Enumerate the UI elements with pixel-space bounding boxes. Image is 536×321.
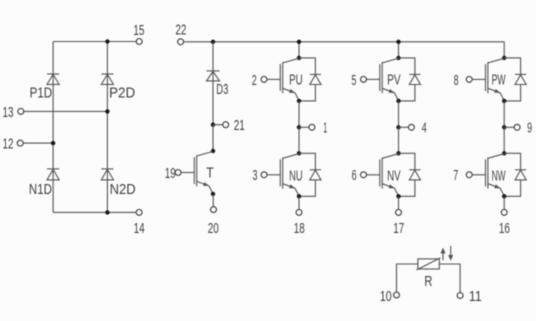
svg-text:21: 21: [234, 117, 245, 134]
terminal 22: [178, 39, 184, 45]
terminal 8 gate of PW: [466, 76, 472, 82]
node emitter of T: [211, 192, 215, 196]
svg-text:9: 9: [527, 120, 532, 137]
label 1: [323, 120, 327, 137]
wire NU emitter to terminal 18: [298, 196, 300, 209]
svg-text:19: 19: [165, 165, 176, 182]
terminal 19 gate of T: [175, 170, 181, 176]
freewheel diode of PU: [299, 58, 321, 101]
svg-text:10: 10: [380, 288, 392, 305]
wire node 13 to bridge: [24, 110, 108, 112]
svg-text:17: 17: [393, 220, 404, 237]
terminal 12: [17, 140, 23, 146]
wire rail drop to PW: [503, 42, 505, 58]
label 4: [422, 120, 427, 137]
node 1 junction: [297, 125, 301, 129]
wire rectifier left leg: [52, 42, 54, 213]
node emitter of PU: [297, 99, 301, 103]
svg-text:R: R: [424, 273, 432, 290]
label 20: [208, 220, 219, 237]
svg-text:P2D: P2D: [109, 84, 135, 101]
terminal 15: [136, 39, 142, 45]
svg-text:T: T: [206, 165, 214, 182]
node emitter of NU: [297, 194, 301, 198]
terminal 14: [136, 209, 142, 215]
node junction 13 on P2D leg: [105, 109, 109, 113]
svg-text:8: 8: [454, 72, 459, 89]
label N1D: [29, 181, 52, 198]
label P1D: [30, 84, 53, 101]
terminal 5 gate of PV: [361, 76, 367, 82]
wire R to terminal 10: [397, 264, 418, 292]
node collector of PW: [502, 56, 506, 60]
freewheel diode of NU: [299, 153, 321, 196]
terminal 21: [223, 122, 229, 128]
label 6: [352, 167, 357, 184]
wire node 9 to NW: [503, 127, 505, 153]
wire chopper mid segment: [212, 125, 214, 151]
label 9: [527, 120, 532, 137]
wire NV emitter to terminal 17: [398, 196, 400, 209]
thermistor down arrow: [448, 246, 453, 261]
wire R to terminal 11: [439, 264, 460, 293]
svg-text:NU: NU: [289, 168, 303, 185]
svg-text:1: 1: [323, 120, 327, 137]
svg-text:PU: PU: [289, 72, 303, 89]
label 2: [252, 72, 257, 89]
freewheel diode of PW: [504, 58, 526, 101]
svg-text:P1D: P1D: [30, 84, 53, 101]
freewheel diode of NV: [399, 153, 421, 196]
label 8: [454, 72, 459, 89]
wire T emitter to terminal 20: [212, 194, 214, 207]
label R: [424, 273, 432, 290]
diode N2D: [101, 169, 113, 180]
svg-text:4: 4: [422, 120, 427, 137]
svg-text:14: 14: [134, 220, 145, 237]
svg-text:18: 18: [294, 220, 305, 237]
svg-text:22: 22: [175, 21, 186, 38]
wire node 1 stub: [299, 126, 309, 128]
wire PW emitter to node 9: [503, 101, 505, 127]
diode P2D: [101, 74, 113, 84]
node collector of NV: [396, 151, 400, 155]
wire rectifier right leg: [106, 42, 108, 213]
transistor T: [181, 151, 213, 193]
transistor NU: [267, 154, 299, 196]
svg-text:N2D: N2D: [110, 181, 136, 198]
transistor PW: [472, 58, 504, 100]
label 21: [234, 117, 245, 134]
label D3: [216, 81, 228, 98]
wire DC+ rail: [184, 41, 505, 43]
wire top rail of rectifier bridge: [53, 41, 136, 43]
node emitter of PV: [396, 99, 400, 103]
wire node 4 stub: [399, 126, 409, 128]
transistor PU: [267, 58, 299, 100]
node junction bottom of N2D leg: [105, 210, 109, 214]
node junction rail at PV leg: [396, 40, 400, 44]
node emitter of NV: [396, 194, 400, 198]
label 15: [133, 22, 144, 39]
wire NW emitter to terminal 16: [503, 196, 505, 209]
label PU: [289, 72, 303, 89]
label T: [206, 165, 214, 182]
node junction rail at PU leg: [297, 40, 301, 44]
wire bottom rail of rectifier bridge: [53, 211, 136, 213]
terminal 4: [408, 124, 414, 130]
label 17: [393, 220, 404, 237]
wire PU emitter to node 1: [298, 101, 300, 127]
node junction top of P2D leg: [105, 39, 109, 43]
diode P1D: [47, 74, 59, 84]
label 11: [469, 288, 482, 305]
label 10: [380, 288, 392, 305]
thermistor R body: [416, 258, 440, 270]
wire node 4 to NV: [398, 127, 400, 153]
wire chopper upper segment: [212, 42, 214, 125]
svg-text:2: 2: [252, 72, 257, 89]
svg-text:7: 7: [453, 167, 458, 184]
thermistor up arrow: [441, 248, 446, 261]
node emitter of PW: [502, 99, 506, 103]
node collector of NU: [297, 151, 301, 155]
transistor NW: [472, 154, 504, 196]
label NV: [387, 168, 401, 185]
label NU: [289, 168, 303, 185]
label PV: [387, 72, 401, 89]
node 4 junction: [396, 125, 400, 129]
terminal 3 gate of NU: [261, 172, 267, 178]
svg-text:NW: NW: [492, 168, 506, 185]
node collector of PV: [396, 56, 400, 60]
label 7: [453, 167, 458, 184]
svg-text:16: 16: [499, 220, 510, 237]
wire node 12 to bridge: [23, 142, 53, 144]
terminal 2 gate of PU: [261, 76, 267, 82]
terminal 11: [457, 293, 463, 299]
wire rail drop to PU: [298, 42, 300, 58]
transistor NV: [366, 154, 398, 196]
wire node 1 to NU: [298, 127, 300, 153]
label 18: [294, 220, 305, 237]
label 3: [253, 167, 258, 184]
label 22: [175, 21, 186, 38]
terminal 17: [396, 209, 402, 215]
node collector of PU: [297, 56, 301, 60]
terminal 9: [514, 124, 520, 130]
wire rail drop to PV: [398, 42, 400, 58]
terminal 7 gate of NW: [466, 172, 472, 178]
terminal 10: [394, 292, 400, 298]
svg-text:5: 5: [351, 72, 356, 89]
terminal 20: [211, 207, 217, 213]
freewheel diode of PV: [399, 58, 421, 101]
svg-text:D3: D3: [216, 81, 228, 98]
terminal 6 gate of NV: [361, 172, 367, 178]
label P2D: [109, 84, 135, 101]
freewheel diode of NW: [504, 153, 526, 196]
svg-text:PV: PV: [387, 72, 401, 89]
svg-text:N1D: N1D: [29, 181, 52, 198]
node junction 12 on P1D leg: [51, 141, 55, 145]
svg-text:11: 11: [469, 288, 482, 305]
terminal 1: [309, 124, 315, 130]
node collector of NW: [502, 151, 506, 155]
node collector of T: [211, 149, 215, 153]
terminal 18: [296, 209, 302, 215]
label NW: [492, 168, 506, 185]
svg-text:PW: PW: [492, 72, 506, 89]
wire PV emitter to node 4: [398, 101, 400, 127]
wire node 9 stub: [504, 126, 514, 128]
node junction rail at chopper: [211, 40, 215, 44]
node 21 junction: [211, 123, 215, 127]
svg-text:6: 6: [352, 167, 357, 184]
label N2D: [110, 181, 136, 198]
node 9 junction: [502, 125, 506, 129]
label PW: [492, 72, 506, 89]
svg-text:13: 13: [3, 104, 14, 121]
label 12: [3, 136, 14, 153]
svg-text:NV: NV: [387, 168, 401, 185]
terminal 16: [501, 209, 507, 215]
label 5: [351, 72, 356, 89]
label 16: [499, 220, 510, 237]
svg-text:15: 15: [133, 22, 144, 39]
terminal 13: [18, 108, 24, 114]
diode N1D: [47, 169, 59, 180]
svg-text:3: 3: [253, 167, 258, 184]
diode D3: [207, 71, 220, 81]
transistor PV: [366, 58, 398, 100]
wire node 21 stub: [213, 124, 223, 126]
node emitter of NW: [502, 194, 506, 198]
label 14: [134, 220, 145, 237]
label 13: [3, 104, 14, 121]
label 19: [165, 165, 176, 182]
svg-text:20: 20: [208, 220, 219, 237]
svg-text:12: 12: [3, 136, 14, 153]
